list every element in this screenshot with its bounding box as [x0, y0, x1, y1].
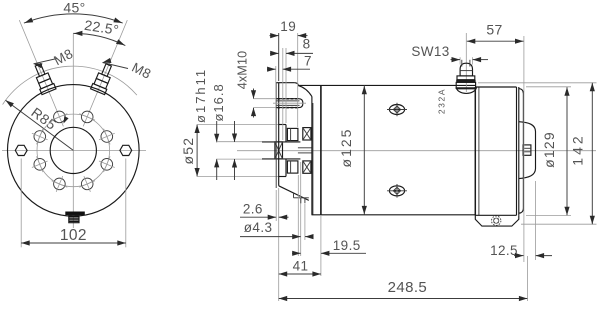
svg-text:ø129: ø129 [541, 131, 557, 168]
svg-text:232A: 232A [436, 88, 446, 114]
svg-text:12.5: 12.5 [490, 243, 518, 258]
svg-text:102: 102 [60, 227, 87, 244]
svg-text:ø4.3: ø4.3 [244, 220, 273, 235]
svg-text:248.5: 248.5 [388, 279, 428, 296]
svg-text:57: 57 [486, 22, 502, 38]
svg-text:2.6: 2.6 [243, 201, 263, 216]
svg-text:4xM10: 4xM10 [235, 51, 249, 90]
svg-text:ø16.8: ø16.8 [211, 83, 226, 121]
svg-text:8: 8 [303, 36, 311, 51]
svg-text:ø17h11: ø17h11 [193, 68, 208, 123]
svg-text:SW13: SW13 [411, 44, 449, 59]
svg-text:7: 7 [304, 54, 312, 69]
svg-text:ø125: ø125 [338, 128, 354, 168]
svg-text:19: 19 [280, 19, 296, 34]
svg-text:ø52: ø52 [180, 137, 196, 165]
svg-text:19.5: 19.5 [333, 238, 361, 253]
svg-text:45°: 45° [63, 0, 85, 15]
svg-text:142: 142 [570, 133, 586, 165]
svg-text:41: 41 [293, 259, 309, 274]
